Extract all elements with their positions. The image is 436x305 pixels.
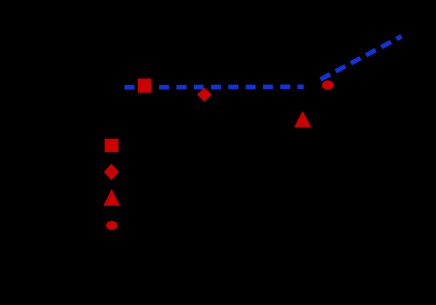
trend line segment 2 (rising, blue dashed)	[321, 36, 402, 79]
legend marker circle	[106, 221, 118, 230]
legend marker triangle	[103, 189, 120, 206]
legend marker square	[105, 139, 119, 153]
data marker triangle T1	[294, 111, 311, 127]
data marker diamond D1	[197, 88, 212, 102]
data marker square S1	[138, 79, 151, 93]
trend line segment 1 (horizontal, blue dashed)	[125, 85, 304, 90]
legend marker diamond	[104, 164, 119, 180]
data marker circle C1	[322, 80, 334, 90]
